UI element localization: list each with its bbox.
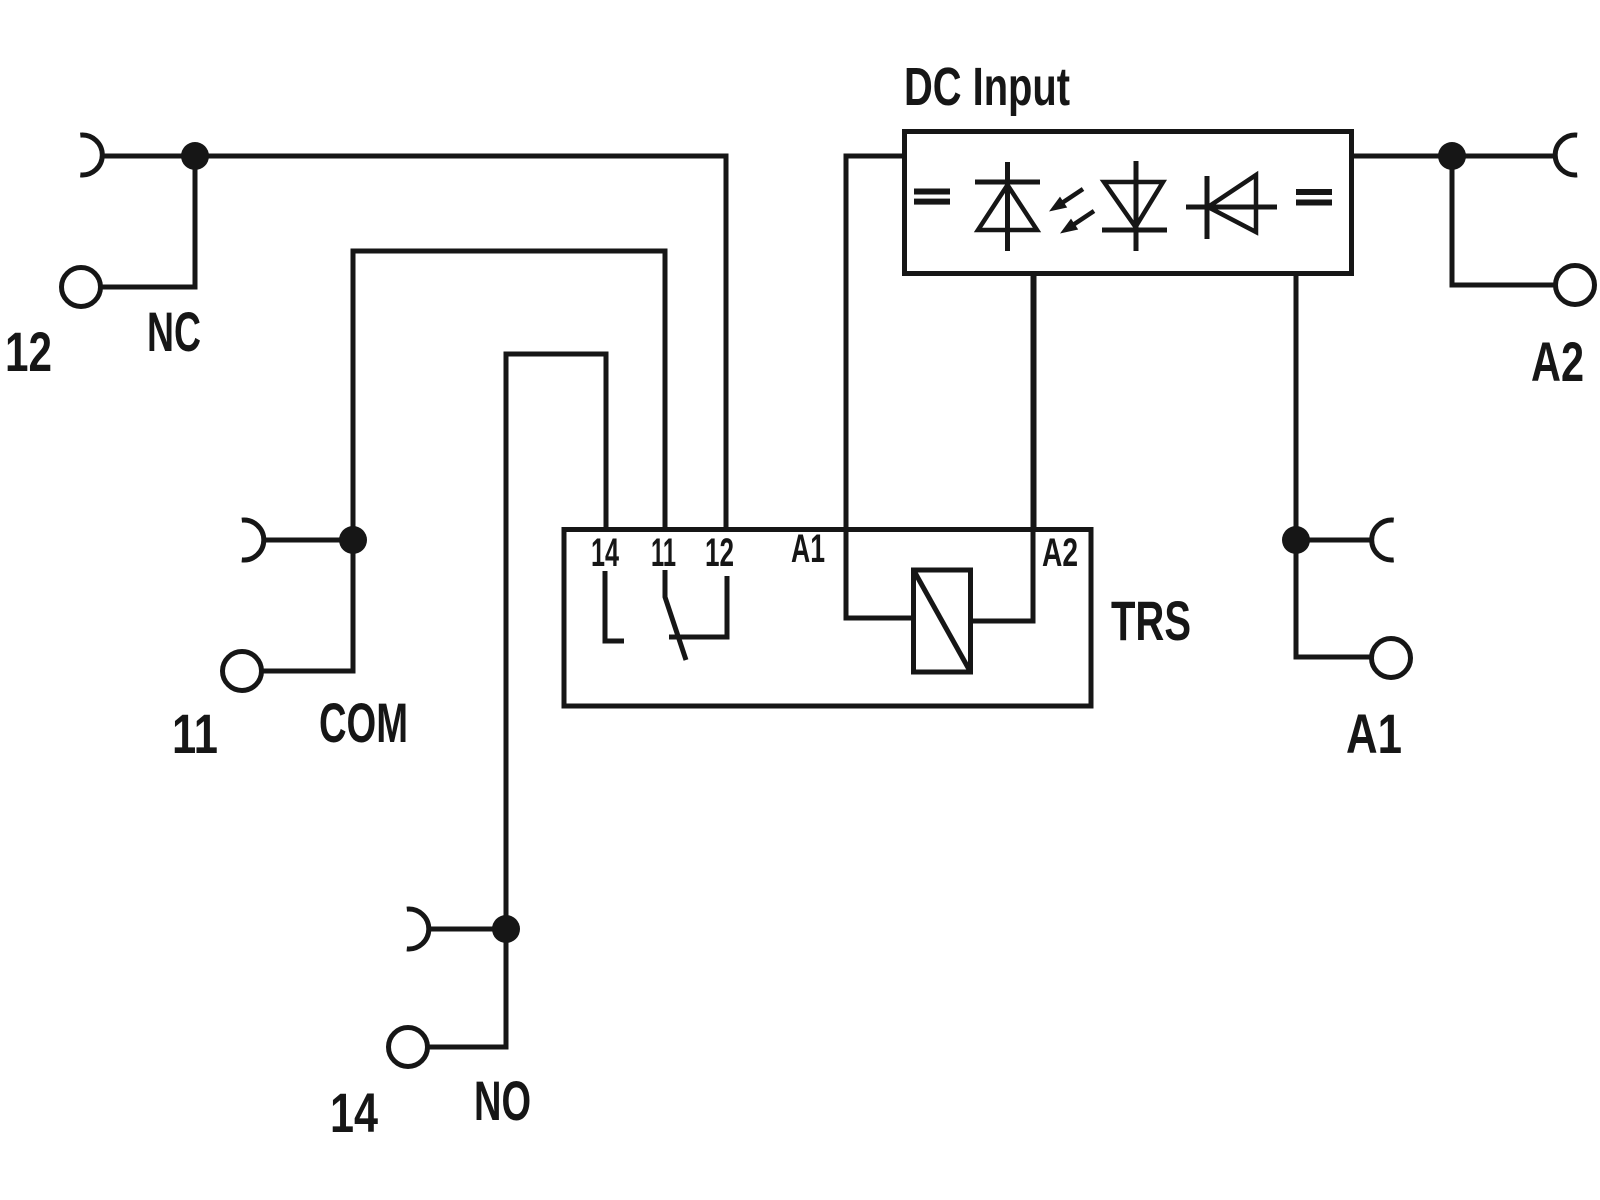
clamp arc 14 xyxy=(407,909,429,949)
diode D3 cathode bar xyxy=(1205,176,1210,239)
svg-text:A2: A2 xyxy=(1042,531,1078,575)
svg-text:DC Input: DC Input xyxy=(904,57,1070,117)
wire NO net: terminal 14 via junction to relay pin 14 xyxy=(427,354,606,1047)
svg-text:TRS: TRS xyxy=(1111,589,1191,652)
suppressor diode D1 lead xyxy=(1005,162,1010,251)
terminal circle A1 xyxy=(1372,639,1411,678)
wire A2 coil return: relay coil to DC box bottom xyxy=(972,276,1033,621)
svg-text:14: 14 xyxy=(330,1081,378,1144)
wire A1 coil feed: DC box left to relay coil xyxy=(846,156,912,618)
LED D2 triangle xyxy=(1104,182,1163,227)
terminal circle A2 xyxy=(1556,266,1595,305)
svg-text:11: 11 xyxy=(172,702,218,765)
suppressor diode D1 triangle xyxy=(978,185,1037,230)
relay coil K1 xyxy=(914,570,971,672)
svg-text:A1: A1 xyxy=(791,527,825,571)
relay contact pin 14 xyxy=(605,571,624,641)
svg-text:NO: NO xyxy=(474,1069,531,1132)
wire A2 net: DC box right to clamp xyxy=(1352,154,1556,159)
svg-text:12: 12 xyxy=(705,531,734,575)
terminal circle 14 xyxy=(389,1028,428,1067)
svg-text:12: 12 xyxy=(5,320,52,383)
terminal circle 11 xyxy=(223,652,262,691)
relay contact pin 11 movable xyxy=(665,570,686,660)
wire A1 net: DC box bottom to terminal xyxy=(1296,276,1373,657)
wire A1 junction to clamp xyxy=(1296,538,1373,543)
clamp arc A1 xyxy=(1372,520,1394,560)
DC Input box U1 xyxy=(905,132,1352,274)
wire A2 junction to terminal circle xyxy=(1452,156,1557,285)
optocoupler arrow 1 xyxy=(1058,189,1083,206)
clamp arc 12 xyxy=(80,135,102,175)
clamp arc 11 xyxy=(242,520,264,560)
junction dot NC xyxy=(181,142,209,170)
wire DC box bottom stub to relay pin A2 xyxy=(1032,276,1037,527)
wire COM net: terminal 11 via junction to relay pin 11 xyxy=(261,251,665,671)
DC symbol left = xyxy=(914,189,950,195)
junction dot A2 xyxy=(1438,142,1466,170)
junction dot NO xyxy=(492,915,520,943)
svg-text:A2: A2 xyxy=(1531,330,1584,393)
relay contact pin 12 xyxy=(669,576,727,637)
clamp arc A2 xyxy=(1555,135,1577,175)
relay box TRS xyxy=(564,530,1091,707)
LED D2 lead xyxy=(1134,161,1139,251)
relay coil diagonal xyxy=(914,570,971,672)
svg-text:NC: NC xyxy=(147,300,201,363)
svg-text:14: 14 xyxy=(591,531,619,575)
terminal circle 12 xyxy=(62,268,101,307)
wire NC net: junction to relay pin 12 xyxy=(101,156,726,527)
junction dot A1 xyxy=(1282,526,1310,554)
wire clamp to NO junction xyxy=(427,927,506,932)
svg-text:11: 11 xyxy=(651,531,676,575)
svg-text:COM: COM xyxy=(319,691,408,754)
wire 12 terminal circle to NC junction xyxy=(100,156,195,287)
diode D3 lead xyxy=(1186,205,1277,210)
junction dot COM xyxy=(339,526,367,554)
LED D2 cathode bar xyxy=(1102,228,1167,233)
svg-text:A1: A1 xyxy=(1346,702,1402,765)
optocoupler arrow 2 xyxy=(1069,211,1094,228)
diode D3 triangle xyxy=(1208,175,1256,232)
wire clamp to COM junction xyxy=(262,538,353,543)
DC symbol right = xyxy=(1296,189,1332,195)
suppressor diode D1 cathode bar xyxy=(975,180,1040,185)
